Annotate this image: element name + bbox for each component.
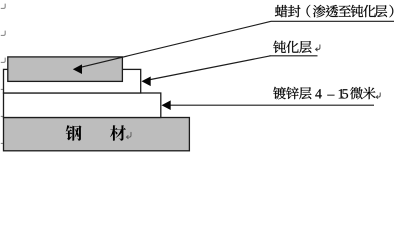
- label3 zinc text 镀锌层: [273, 87, 286, 99]
- line-break mark after label2: [316, 45, 320, 51]
- line-break mark after steel text: [126, 132, 131, 138]
- margin line-break mark y84: [1, 85, 5, 90]
- margin line-break mark y3: [1, 4, 5, 9]
- leader arrow 2 (passivation): [146, 56, 271, 81]
- wax seal box: [8, 57, 123, 82]
- label3 value text 4-15: [315, 89, 322, 98]
- steel label text: [66, 125, 82, 141]
- margin line-break mark y30: [1, 31, 5, 36]
- steel layer box: [4, 118, 190, 151]
- underline label1: [271, 20, 394, 22]
- label1 wax seal text: [275, 5, 288, 17]
- label2 passivation text: [273, 41, 286, 53]
- underline label2: [270, 55, 318, 57]
- margin line-break mark y57: [1, 58, 5, 63]
- leader arrow 1 (wax seal): [77, 21, 271, 68]
- leader arrow 3 (zinc) + underline3: [166, 104, 374, 106]
- margin line-break mark y138: [1, 139, 5, 144]
- label3 unit text 微米: [350, 87, 362, 99]
- margin line-break mark y111: [1, 112, 5, 117]
- passivation layer box: [4, 69, 141, 93]
- zinc coating layer box: [4, 93, 161, 118]
- line-break mark after label3: [376, 93, 380, 99]
